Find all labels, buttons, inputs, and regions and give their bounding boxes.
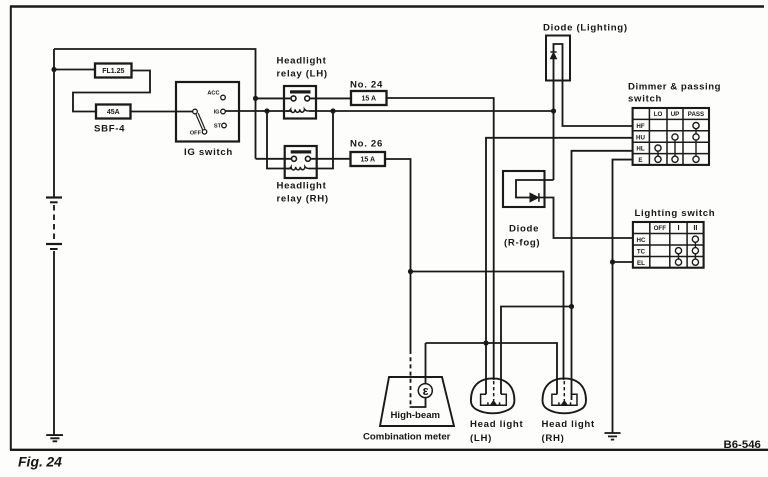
svg-text:45A: 45A [107,109,120,116]
svg-text:SBF-4: SBF-4 [94,124,125,135]
svg-text:IG switch: IG switch [184,147,233,158]
svg-text:Lighting switch: Lighting switch [635,208,716,219]
svg-text:IG: IG [214,110,220,116]
lighting switch contacts [675,236,698,265]
wire coil bus down to RH coil output [309,111,333,169]
headlight (RH) dome [543,378,587,413]
node coil output junction [330,108,335,113]
svg-text:Headlight: Headlight [277,56,327,67]
headlight (RH) bulb [552,381,577,406]
wire diode lighting anode down [553,81,555,181]
wire relay LH coil output to diode [309,110,554,112]
wire contact feed to relay LH [256,97,292,99]
svg-text:OFF: OFF [190,131,202,137]
lighting table labels [637,223,698,267]
IG switch box [176,82,239,142]
diode (Lighting) element [550,44,562,81]
node EL junction [610,259,615,264]
svg-text:OFF: OFF [654,225,667,232]
svg-text:Fig. 24: Fig. 24 [18,454,62,470]
wire meter feed dashed [410,350,412,406]
diode (R-fog) box [503,171,545,207]
svg-text:B6-546: B6-546 [724,439,761,451]
wire meter lamp loop [411,398,426,407]
svg-text:HF: HF [636,123,644,130]
wire low beam split [501,307,572,395]
svg-text:Dimmer & passing: Dimmer & passing [628,82,721,93]
svg-text:HC: HC [637,237,646,244]
wire high beam indicator drop [425,343,427,384]
relay RH contact terminals [292,156,297,161]
IG switch lever [196,113,205,130]
wire battery top feed to relays [54,49,256,159]
svg-text:(R-fog): (R-fog) [504,238,540,249]
svg-text:LO: LO [654,111,663,118]
relay RH coil [287,167,309,170]
small box texts [102,68,376,164]
svg-text:Head light: Head light [542,419,595,430]
svg-text:II: II [693,223,697,232]
svg-text:Diode: Diode [509,224,539,235]
node contact feed junction [253,96,258,101]
wire fuse No.24 to headlight LH power [387,98,494,380]
wire lighting switch EL feed [613,261,633,263]
wire high beam bus [426,343,558,394]
svg-text:No. 26: No. 26 [350,139,383,150]
wire low beam to RH headlight [571,307,573,401]
dimmer & passing switch table [633,108,709,165]
svg-text:Head light: Head light [470,419,523,430]
IG switch ACC contact [221,95,226,100]
diode (R-fog) element [516,180,633,238]
IG switch ST contact [222,123,227,128]
relay LH contact terminals [291,96,296,101]
svg-text:UP: UP [671,111,680,118]
IG switch position labels [190,91,222,137]
svg-text:switch: switch [628,94,662,105]
wire relay LH contact to fuse No.24 [310,97,351,99]
relay LH coil [287,109,309,112]
high-beam indicator lamp [418,384,432,398]
ground (battery) [46,435,63,441]
node battery/FL junction [51,67,56,72]
wire FL1.25 to 45A fuse [73,71,150,112]
svg-text:FL1.25: FL1.25 [102,68,124,75]
combination meter body [380,377,454,426]
svg-text:HL: HL [636,146,644,153]
svg-text:ST: ST [214,124,222,130]
node diode/coil junction [551,108,556,113]
svg-text:relay (RH): relay (RH) [277,194,329,205]
relay LH contact bar [290,90,311,93]
svg-text:E: E [638,157,642,164]
svg-text:HU: HU [636,134,645,141]
battery B1 [46,49,62,435]
wire battery to FL1.25 [54,69,95,71]
svg-text:High-beam: High-beam [391,410,441,421]
svg-text:15 A: 15 A [362,96,377,103]
node high beam junction [483,340,488,345]
headlight relay (LH) box [284,86,316,119]
IG switch OFF contact [202,130,207,135]
wire relay RH contact to fuse No.26 [310,158,350,160]
border frame bottom [10,449,768,451]
wire dimmer E to ground [613,160,633,433]
svg-text:15 A: 15 A [361,157,376,164]
svg-text:No. 24: No. 24 [350,80,383,91]
wire IG output to relay coils [225,110,292,112]
svg-text:relay (LH): relay (LH) [277,69,328,80]
svg-text:(LH): (LH) [470,433,492,444]
relay RH contact bar [291,150,312,153]
node RH power junction [408,269,413,274]
svg-text:(RH): (RH) [542,433,565,444]
svg-text:Diode (Lighting): Diode (Lighting) [543,23,628,34]
svg-text:Combination meter: Combination meter [363,432,451,443]
fuse No.24 15A [351,91,387,105]
ground (right) [605,433,621,440]
headlight (LH) bulb [481,381,507,406]
wire fuse No.26 output [385,159,411,350]
fusible link FL1.25 [95,64,132,78]
wire coil feed down to RH relay coil [267,111,292,169]
border frame left [10,6,12,450]
fuse No.26 15A [351,152,386,166]
svg-text:I: I [677,223,679,232]
wire contact feed to relay RH [256,158,292,160]
wire 45A to IG switch [131,111,193,113]
fuse SBF-4 45A [96,105,131,119]
wire diode lighting cathode to dimmer HF [563,81,633,127]
svg-text:TC: TC [637,248,646,255]
border frame top [10,5,764,7]
node low beam junction [569,304,574,309]
headlight (LH) dome [471,378,515,413]
IG switch pivot contact [193,109,198,114]
svg-text:Headlight: Headlight [277,181,327,192]
wire dimmer HU feed (high beam) [486,138,633,395]
lighting switch table [633,222,704,268]
IG switch IG contact [221,109,226,114]
dimmer table labels [636,111,704,164]
svg-text:EL: EL [637,260,645,267]
diode (Lighting) box [546,36,570,81]
headlight relay (RH) box [285,146,317,178]
node coil feed junction [264,108,269,113]
wire dimmer HL feed (low beam) [572,151,633,307]
svg-text:PASS: PASS [688,111,704,118]
dimmer switch contacts [655,123,699,163]
svg-text:ACC: ACC [207,91,219,97]
svg-text:ε: ε [423,384,429,398]
wire RH power branch [411,272,564,381]
